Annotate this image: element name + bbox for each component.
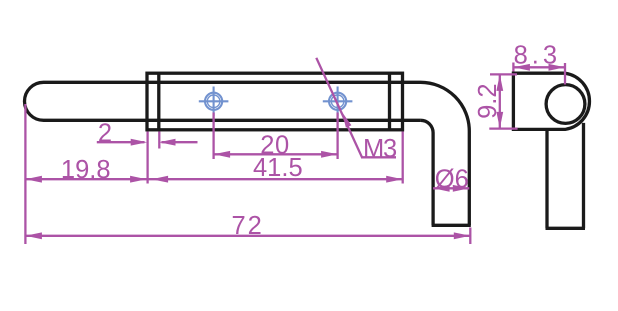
svg-text:Ø6: Ø6 [435, 165, 469, 193]
svg-text:19.8: 19.8 [61, 156, 111, 184]
svg-text:8.3: 8.3 [514, 42, 561, 70]
svg-text:41.5: 41.5 [253, 154, 303, 182]
svg-text:72: 72 [232, 212, 264, 240]
svg-text:9.2: 9.2 [474, 83, 502, 118]
svg-text:2: 2 [98, 119, 112, 147]
svg-text:M3: M3 [363, 135, 397, 163]
